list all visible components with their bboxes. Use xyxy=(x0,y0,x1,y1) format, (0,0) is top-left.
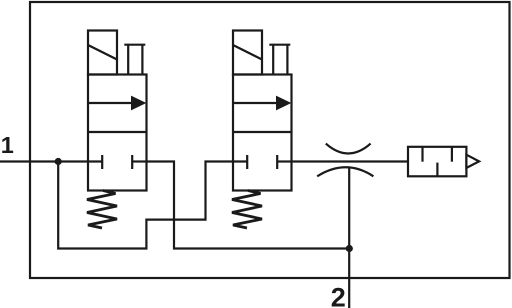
manual override of valve V1 xyxy=(124,44,145,46)
return spring of valve V1 xyxy=(87,191,117,229)
node junction on supply line xyxy=(55,158,62,165)
manual override of valve V2 xyxy=(269,44,290,46)
valve V2 blocked port bars (closed position) xyxy=(246,155,248,169)
silencer U1 body xyxy=(408,147,466,177)
wire venturi to port 2 xyxy=(348,167,350,308)
silencer baffle lines xyxy=(421,147,423,162)
venturi nozzle upper arc xyxy=(326,144,371,154)
valve V2 body (2/2-way valve) xyxy=(233,75,292,191)
valve V2 right port stub xyxy=(277,160,291,162)
silencer exhaust triangle xyxy=(466,155,479,168)
solenoid coil of valve V2 xyxy=(233,31,262,75)
svg-text:1: 1 xyxy=(1,132,14,158)
valve V1 position divider xyxy=(88,131,147,133)
valve V2 flow arrow (open position) xyxy=(233,102,278,104)
valve V2 position divider xyxy=(233,131,292,133)
svg-text:2: 2 xyxy=(331,283,346,308)
valve V1 right port stub xyxy=(132,160,146,162)
wire supply branch to valve V2 xyxy=(58,162,247,249)
wire valve V2 outlet to silencer xyxy=(292,160,409,162)
wire port 1 supply line xyxy=(0,160,102,162)
venturi nozzle lower arc xyxy=(317,167,373,176)
valve V1 body (2/2-way valve) xyxy=(88,75,147,191)
valve V1 blocked port bars (closed position) xyxy=(101,155,103,169)
valve V1 flow arrow (open position) xyxy=(88,102,133,104)
solenoid coil of valve V1 xyxy=(88,31,117,75)
wire valve V1 outlet to node 2 xyxy=(147,162,350,249)
return spring of valve V2 xyxy=(232,191,262,229)
node junction at port 2 xyxy=(346,245,353,252)
